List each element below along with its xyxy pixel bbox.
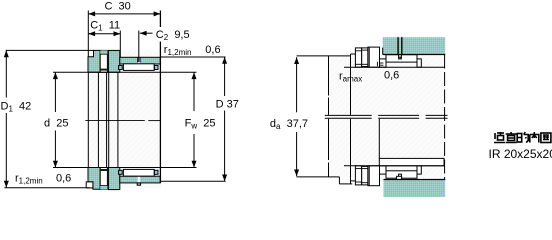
D extension line bottom <box>160 180 225 182</box>
sleeve left lip (bottom, mounted) <box>380 166 387 174</box>
svg-text:IR 20x25x20,5: IR 20x25x20,5 <box>489 147 552 161</box>
shaft axis break double line upper <box>325 114 372 116</box>
svg-text:Fw 25: Fw 25 <box>185 118 216 131</box>
thrust outer washer / ring flange (top, mounted) <box>368 47 380 67</box>
dimension D 37 <box>224 57 226 96</box>
D1 extension line top <box>6 49 94 51</box>
thrust cage bar above ball (bottom) <box>100 169 107 171</box>
housing bore edge <box>383 54 446 56</box>
C extension line left <box>87 11 89 57</box>
sleeve left lip (top) <box>119 66 123 70</box>
svg-text:C 30: C 30 <box>105 1 131 13</box>
dimension da 37,7 <box>296 57 298 112</box>
shaft shoulder bottom line / da extension bottom <box>297 176 329 178</box>
shaft end dashed line <box>444 55 446 180</box>
ball pocket (bottom) <box>100 168 107 190</box>
housing bore edge bottom <box>384 179 446 181</box>
thrust outer washer / ring flange (bottom, mounted) <box>368 166 380 186</box>
centerline left figure <box>85 120 145 122</box>
shaft axis break double line lower <box>325 117 372 119</box>
C1 extension line right <box>119 31 121 58</box>
sleeve seam gap (top) <box>138 58 140 64</box>
housing face edge <box>382 48 384 55</box>
ball pocket (top) <box>100 50 107 72</box>
sleeve left lip (bottom) <box>119 170 123 174</box>
sleeve seam dot (top) <box>399 57 401 59</box>
shaft seat surface line (top) <box>344 66 445 68</box>
svg-text:0,6: 0,6 <box>205 44 220 56</box>
washer overhang step (bottom) <box>338 177 340 184</box>
washer overhang step (top) / washer bore silhouette <box>350 54 352 115</box>
D extension line top <box>160 56 225 58</box>
svg-text:C2 9,5: C2 9,5 <box>156 29 190 42</box>
sleeve right lip (bottom, mounted) <box>417 166 421 174</box>
inner ring left face silhouette <box>378 119 380 159</box>
washer left face silhouette <box>87 72 89 167</box>
outer ring flange bore silhouette <box>108 72 110 167</box>
needle sleeve (top) <box>120 57 161 64</box>
sleeve seam bump (bottom) <box>137 183 140 185</box>
needle rollers (bottom) <box>123 169 154 176</box>
svg-text:D 37: D 37 <box>216 98 239 110</box>
thrust washer A (top, mounted) <box>355 48 361 67</box>
svg-text:da 37,7: da 37,7 <box>270 118 308 131</box>
svg-text:C1 11: C1 11 <box>90 20 120 33</box>
shaft seat surface line (bottom) <box>344 165 445 167</box>
right face line (C extension / face) <box>159 11 161 28</box>
dimension d 25 <box>54 72 56 112</box>
svg-text:0,6: 0,6 <box>384 70 399 82</box>
faint hatch background left figure <box>88 50 161 188</box>
bore line top (d / Fw extension) <box>53 71 197 73</box>
svg-text:D1 42: D1 42 <box>1 101 32 114</box>
thrust shaft washer (top) <box>88 50 100 72</box>
svg-text:d 25: d 25 <box>44 118 68 130</box>
sleeve right lip (top) <box>154 66 158 70</box>
outer ring flange right silhouette <box>117 72 119 167</box>
washer foot outline (bottom) <box>86 182 93 188</box>
sleeve seam mark (top, mounted) <box>399 55 402 59</box>
needle sleeve (bottom, mounted) <box>386 171 417 178</box>
dimension C2 9,5 <box>138 31 140 63</box>
shaft shoulder face line <box>328 56 330 96</box>
thrust cage rail below ball (bottom) <box>100 186 107 190</box>
sleeve seam mark (bottom, mounted) <box>399 174 402 178</box>
caption: suitable inner ring (Chinese, hand-drawn glyphs) <box>494 132 551 143</box>
faint hatch background right figure <box>328 56 445 177</box>
fillet detail marks ra (bottom) <box>376 167 378 172</box>
sleeve right lip (bottom) <box>154 170 158 174</box>
sleeve left lip (top, mounted) <box>380 59 387 67</box>
bore line bottom (d / Fw extension) <box>53 167 197 169</box>
inner ring IR (bottom) <box>379 158 444 165</box>
thrust cage bar below ball (top) <box>100 69 107 71</box>
thrust shaft washer (bottom) <box>88 168 100 190</box>
svg-text:0,6: 0,6 <box>56 173 71 185</box>
ball pocket (top, mounted) <box>362 48 368 67</box>
thrust washer A (bottom, mounted) <box>355 166 361 185</box>
needle sleeve (top, mounted) <box>386 55 417 62</box>
needle rollers (top) <box>123 64 154 71</box>
needle sleeve (bottom) <box>120 176 161 183</box>
ball pitch silhouette left <box>106 72 108 167</box>
sleeve seam bump (bottom, mounted) <box>397 176 402 179</box>
thrust cage rail above ball (top) <box>100 50 107 54</box>
fillet detail marks ra (top) <box>376 62 378 67</box>
sleeve right lip (top, mounted) <box>417 59 421 67</box>
housing (bottom, hatched) <box>384 180 446 198</box>
dimension Fw 25 <box>193 72 195 111</box>
D1 extension line bottom <box>4 187 89 189</box>
outer ring thrust flange (top) <box>108 50 119 72</box>
washer right face silhouette <box>97 72 99 167</box>
sleeve seam gap (bottom) <box>138 177 140 183</box>
housing (top, hatched) <box>383 37 446 54</box>
housing seam bars (top) <box>397 37 398 54</box>
ball pocket (bottom, mounted) <box>362 166 368 185</box>
shaft shoulder top line / da extension top <box>297 55 351 57</box>
outer ring thrust flange (bottom) <box>108 168 119 190</box>
